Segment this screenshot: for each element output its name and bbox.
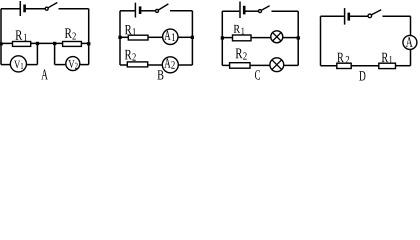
wire: D right vertical upper: [410, 16, 412, 35]
wire: B bottom left segment: [120, 64, 127, 66]
voltmeter V2 circle: [66, 57, 80, 71]
resistor R1 (D) box: [379, 63, 396, 68]
wire: D left vertical: [320, 16, 322, 65]
wire: B row1 ammeter to right wire: [178, 36, 192, 38]
wire: A right vertical: [88, 9, 90, 65]
wire: C row1 left stub: [222, 37, 232, 39]
node: A junction dot before R2: [53, 42, 56, 45]
node: B right junction dot row1: [191, 36, 194, 39]
wire: A switch to top-right corner: [59, 8, 89, 10]
wire: B bottom box to ammeter A2: [148, 64, 163, 66]
resistor R1 (C) box: [233, 35, 252, 41]
resistor R2 (A) box: [63, 42, 82, 47]
wire: A battery to switch: [26, 8, 45, 10]
label R1 (D) subscript: [389, 56, 392, 63]
label R1 (B) subscript: [133, 28, 136, 35]
label R2 (B) subscript: [132, 53, 135, 60]
label R1 (D): [382, 53, 389, 62]
battery BT-C short thick plate: [243, 6, 246, 15]
label C (circuit name): [255, 70, 260, 79]
label A2 subscript: [171, 61, 174, 69]
battery BT-D long plate: [344, 8, 346, 25]
wire: D bottom left segment: [321, 65, 337, 67]
wire: C right vertical: [297, 11, 299, 65]
switch S-D pivot circle: [368, 14, 372, 18]
wire: A left vertical: [0, 9, 2, 65]
wire: C bottom left segment: [222, 64, 229, 66]
label R2 (D) subscript: [346, 56, 349, 63]
label V1 text: [14, 61, 20, 69]
voltmeter V1 circle: [10, 56, 26, 72]
wire: C switch to top-right corner: [272, 10, 299, 12]
wire: B right vertical: [191, 11, 193, 65]
label R2 (B): [125, 50, 132, 59]
ammeter A1 circle: [163, 29, 178, 44]
label R2 (A) subscript: [72, 33, 75, 40]
wire: C row1 box to lamp L1: [251, 37, 271, 39]
label R1 (C): [234, 25, 240, 33]
wire: A top left segment: [1, 8, 20, 10]
wire: C bottom lamp to right corner: [283, 64, 298, 66]
wire: C row1 lamp to right wire: [283, 37, 299, 39]
wire: C battery to switch: [246, 10, 259, 12]
resistor R1 (A) box: [13, 42, 31, 47]
label B (circuit name): [157, 70, 163, 79]
label V1 subscript: [21, 63, 23, 69]
battery BT-C long plate: [239, 2, 241, 19]
label A (circuit name): [41, 69, 48, 79]
label A (D ammeter) text: [406, 37, 413, 47]
wire: B battery to switch: [141, 10, 155, 12]
lamp L2 cross stroke 1: [272, 60, 282, 70]
label V2 subscript: [75, 63, 78, 69]
resistor R1 (B) box: [128, 35, 148, 40]
battery BT-A long plate: [19, 1, 21, 16]
label R1 (A): [16, 30, 23, 40]
wire: D bottom right segment: [396, 65, 411, 67]
ammeter A2 circle: [162, 57, 178, 73]
wire: A middle row between R1 and R2: [31, 42, 63, 44]
wire: D bottom between R2 and R1: [351, 65, 379, 67]
ammeter A (D) circle: [403, 35, 417, 49]
battery BT-A short thick plate: [23, 5, 26, 13]
node: C right junction dot row1: [297, 36, 300, 39]
label R1 (C) subscript: [242, 28, 245, 35]
lamp L2 circle: [270, 58, 284, 72]
battery BT-B short thick plate: [139, 6, 142, 14]
label R2 (C) subscript: [243, 52, 246, 59]
label D (circuit name): [359, 71, 365, 80]
lamp L1 cross stroke 2: [273, 33, 281, 41]
label A2 text: [164, 58, 170, 67]
label A1 subscript: [172, 33, 175, 41]
switch S-A pivot circle: [45, 7, 48, 10]
switch S-B pivot circle: [156, 9, 159, 12]
node: B left junction dot row1: [118, 36, 121, 39]
resistor R2 (C) box: [230, 63, 250, 68]
wire: B row1 box to ammeter A1: [148, 36, 163, 38]
wire: V2 left vertical drop: [54, 43, 56, 64]
label A1 text: [164, 31, 170, 40]
wire: B left vertical: [119, 11, 121, 65]
wire: V2 right to A right wire: [80, 64, 88, 66]
wire: B switch to top-right corner: [170, 10, 192, 12]
node: A left T junction dot: [0, 42, 3, 45]
wire: B bottom ammeter to right corner: [178, 64, 192, 66]
label R2 (D): [337, 53, 344, 62]
switch S-B blade: [159, 4, 169, 10]
wire: C bottom box to lamp L2: [250, 64, 270, 66]
lamp L2 cross stroke 2: [272, 60, 282, 70]
switch S-C pivot circle: [259, 10, 262, 13]
resistor R2 (D) box: [337, 63, 351, 68]
switch S-C blade: [262, 6, 270, 10]
resistor R2 (B) box: [127, 62, 147, 67]
wire: B top left segment: [120, 10, 135, 12]
lamp L1 circle: [271, 31, 283, 43]
wire: D top left segment: [321, 15, 344, 17]
wire: D battery to switch: [350, 15, 368, 17]
lamp L1 cross stroke 1: [273, 33, 281, 41]
wire: A middle row right segment: [81, 42, 88, 44]
wire: A bottom to V1 left: [1, 64, 10, 66]
wire: A middle row left segment: [1, 42, 13, 44]
battery BT-D short thick plate: [347, 13, 350, 21]
label V2 text: [68, 60, 74, 68]
node: A right T junction dot: [87, 42, 90, 45]
wire: V1 right to drop: [27, 64, 38, 66]
wire: drop to V2 left: [55, 64, 66, 66]
node: A junction dot after R1: [36, 42, 39, 45]
switch S-A blade: [48, 3, 57, 8]
battery BT-B long plate: [134, 3, 136, 18]
label R1 (A) subscript: [24, 34, 27, 41]
wire: C left vertical: [221, 11, 223, 65]
switch S-D blade: [372, 10, 382, 15]
wire: D right vertical lower: [410, 49, 412, 65]
wire: B row1 left stub: [120, 36, 128, 38]
wire: C top left segment: [222, 10, 239, 12]
label R1 (B): [125, 25, 132, 34]
label R2 (A): [65, 28, 72, 38]
wire: D switch to top-right corner: [383, 15, 411, 17]
wire: V1 right vertical drop: [36, 43, 38, 64]
node: C left junction dot row1: [221, 36, 224, 39]
label R2 (C): [236, 49, 243, 59]
